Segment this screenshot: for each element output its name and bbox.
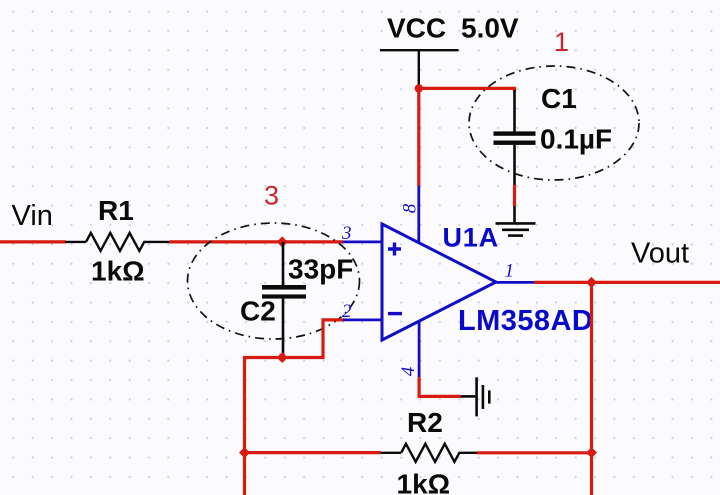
wire feedback from pin2 down to C2 bottom: [245, 320, 344, 453]
node junction at output: [586, 277, 597, 288]
svg-text:8: 8: [399, 203, 420, 213]
wire C1 to ground: [513, 185, 516, 206]
ground below C1: [496, 206, 536, 236]
node junction at C2 top: [277, 236, 288, 247]
ground at pin4 (rotated): [461, 377, 489, 416]
wire pin4 to ground: [419, 377, 461, 396]
svg-text:Vout: Vout: [631, 238, 689, 270]
svg-text:1: 1: [505, 261, 515, 282]
svg-text:VCC: VCC: [387, 13, 446, 44]
capacitor C1: [494, 90, 536, 185]
svg-text:4: 4: [398, 366, 419, 376]
wire stub to bottom edge: [243, 453, 246, 495]
wire pin4 stub (blue): [418, 321, 421, 377]
wire pin3 stub (blue): [343, 240, 382, 243]
svg-text:1: 1: [554, 27, 569, 57]
wire output to Vout: [534, 281, 720, 284]
node junction at VCC: [415, 84, 423, 92]
svg-text:R1: R1: [98, 195, 134, 226]
svg-text:Vin: Vin: [12, 200, 53, 232]
svg-text:33pF: 33pF: [288, 254, 353, 285]
wire pin2 stub (blue): [343, 318, 382, 321]
annotation ellipse 1: [469, 66, 639, 180]
wire pin8 vertical (red part): [417, 88, 420, 186]
wire pin1 stub (blue): [496, 281, 535, 284]
svg-text:3: 3: [341, 223, 352, 244]
svg-text:LM358AD: LM358AD: [458, 305, 593, 337]
node junction at C2 bottom: [277, 352, 288, 363]
annotation ellipse 3: [188, 223, 360, 339]
svg-text:C2: C2: [240, 296, 276, 327]
wire Vin input: [0, 240, 66, 243]
svg-text:5.0V: 5.0V: [461, 13, 519, 44]
svg-text:1kΩ: 1kΩ: [397, 469, 451, 495]
wire output down to R2: [590, 282, 593, 495]
op-amp minus input mark: [388, 312, 402, 315]
svg-text:3: 3: [264, 181, 279, 211]
capacitor C2: [262, 242, 306, 358]
svg-text:0.1µF: 0.1µF: [540, 124, 612, 155]
svg-text:U1A: U1A: [443, 223, 499, 253]
wire C2 bottom to R2 left: [245, 451, 381, 454]
wire R2 right to output: [477, 451, 592, 454]
svg-text:2: 2: [342, 301, 352, 322]
wire VCC junction to C1: [419, 88, 515, 92]
resistor R1: [65, 233, 169, 251]
wire R1 to op-amp pin3: [169, 240, 343, 243]
resistor R2: [381, 444, 477, 462]
op-amp plus input mark: [388, 243, 401, 256]
node junction R2 right: [586, 447, 597, 458]
power rail VCC symbol: [380, 50, 459, 88]
node junction R2 left: [239, 447, 250, 458]
svg-text:R2: R2: [407, 407, 443, 438]
svg-text:C1: C1: [541, 83, 577, 114]
op-amp U1A triangle: [382, 224, 496, 340]
svg-text:1kΩ: 1kΩ: [91, 256, 145, 287]
wire pin8 stub (blue): [417, 186, 420, 243]
